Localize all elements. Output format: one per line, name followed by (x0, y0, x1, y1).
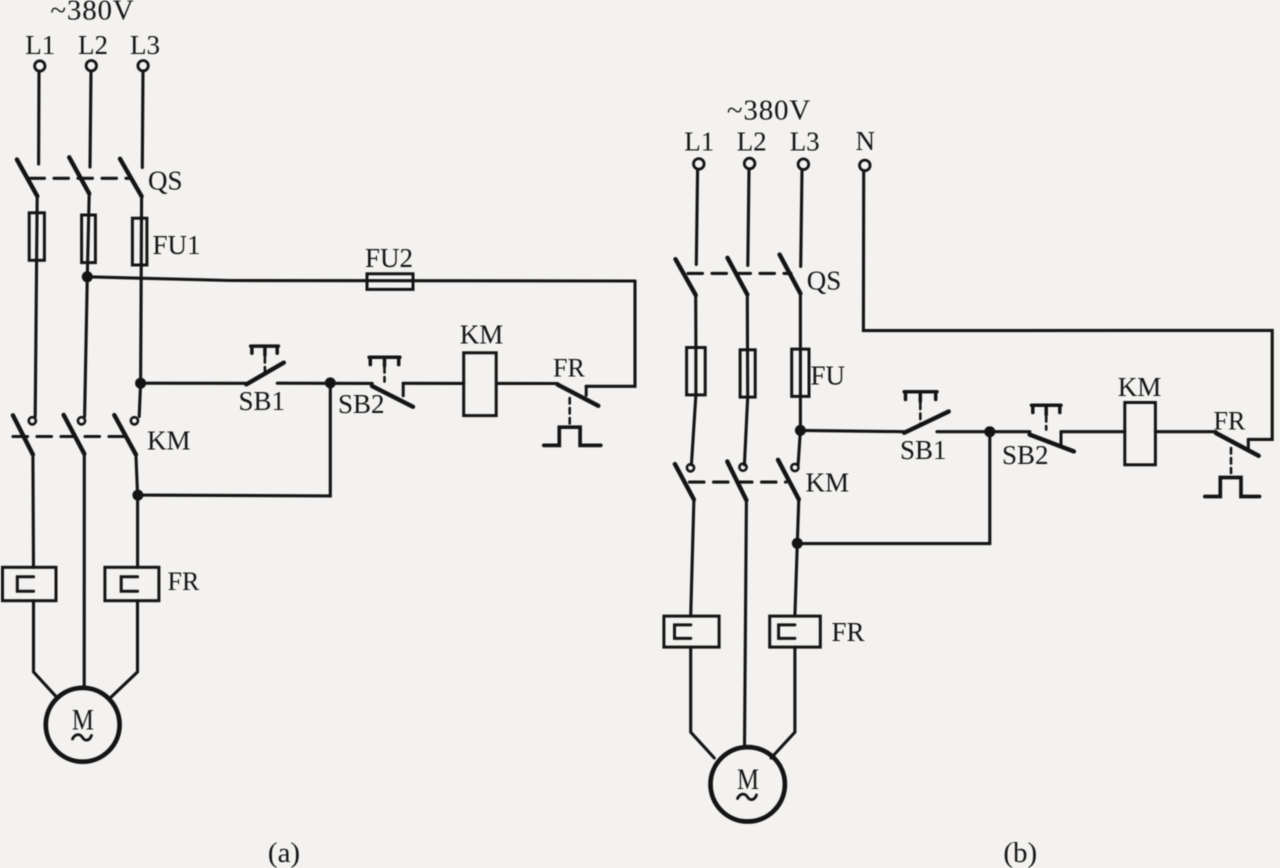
wire node A to FU2 to right rail (a) (87, 277, 635, 281)
motor tilde (a) (73, 735, 92, 740)
wire L2 terminal to QS (a) (90, 71, 91, 167)
overload relay FR heater 1 box (b) (664, 616, 719, 647)
contactor KM main contact 1 hook (b) (687, 464, 694, 471)
wire QS pole3 through fuse FU-3 to node E and KM contact (b) (798, 293, 800, 464)
svg-text:L1: L1 (684, 127, 714, 157)
wire FR heater 1 to motor (b) (691, 647, 715, 758)
contactor KM main contact 3 hook (a) (131, 417, 138, 424)
switch QS (b) pole 1 blade (676, 259, 696, 295)
overload relay FR heater 2 box (b) (770, 616, 821, 647)
svg-text:KM: KM (147, 426, 191, 456)
terminal L3 (a) (138, 60, 148, 70)
terminal N (b) (860, 160, 871, 171)
contactor KM main contacts linkage dashed line (b) (690, 481, 787, 484)
overload relay FR heater 2 inner detail (a) (121, 577, 137, 592)
wire KM coil to FR contact (a) (496, 382, 557, 385)
overload relay FR heater 1 inner detail (a) (17, 577, 33, 592)
wire latch branch node F to node G (b) (797, 432, 990, 544)
fuse FU1 element 1 (a) (29, 213, 44, 260)
pushbutton SB1 actuator (a) (251, 346, 279, 355)
svg-text:L3: L3 (130, 30, 160, 60)
fuse FU1 element 3 (a) (132, 218, 147, 265)
pushbutton SB1 blade (a) (246, 363, 283, 385)
wire right rail of control circuit (a) (586, 281, 635, 386)
wire N terminal down right and to FR contact (b) (863, 171, 1272, 439)
svg-text:FR: FR (553, 353, 585, 382)
wire KM contact 2 down to motor (a) (83, 454, 86, 689)
wire SB1 to node C to SB2 (a) (277, 382, 372, 385)
overload relay FR contact blade (b) (1216, 433, 1259, 456)
svg-text:(b): (b) (1003, 837, 1037, 868)
pushbutton SB2 actuator dashed stem (b) (1045, 416, 1048, 430)
overload relay FR manual reset symbol (b) (1205, 478, 1260, 497)
switch QS (a) pole 3 blade (120, 159, 142, 197)
svg-text:M: M (72, 704, 94, 736)
overload relay FR heater 2 box (a) (105, 567, 159, 600)
node D junction dot on L3 column below KM contact (a) (132, 490, 143, 501)
svg-text:SB1: SB1 (239, 386, 286, 416)
pushbutton SB1 blade (b) (904, 412, 949, 433)
node G junction dot SB1/SB2/latch (b) (984, 426, 995, 437)
pushbutton SB2 blade (b) (1030, 435, 1074, 452)
overload relay FR heater 1 inner detail (b) (675, 625, 691, 639)
wire L3 terminal to QS (b) (801, 170, 802, 267)
overload relay FR heater 2 inner detail (b) (779, 625, 795, 639)
wire QS pole3 through fuse FU1-3 to node B and KM contact (a) (139, 196, 141, 416)
pushbutton SB1 actuator dashed stem (b) (919, 404, 922, 425)
wire QS pole1 to fuse FU1-1 and down to KM contact (a) (35, 196, 37, 417)
overload relay FR contact dashed link (a) (568, 398, 571, 424)
switch QS (a) pole 1 blade (17, 160, 37, 197)
node A junction dot on L2 feeding FU2 (a) (82, 271, 93, 282)
fuse FU element 3 (b) (792, 349, 809, 396)
wire KM contact 2 down to motor (b) (745, 500, 747, 747)
svg-text:FU1: FU1 (153, 230, 201, 260)
switch QS (b) pole 3 blade (780, 255, 801, 294)
svg-text:N: N (855, 126, 875, 156)
svg-text:(a): (a) (268, 837, 300, 868)
contactor coil KM (a) (464, 353, 497, 416)
pushbutton SB2 actuator (a) (369, 357, 400, 366)
svg-text:L2: L2 (737, 127, 767, 157)
contactor KM main contacts linkage dashed line (a) (13, 435, 126, 438)
overload relay FR manual reset symbol (a) (544, 427, 601, 445)
wire FR heater 2 to motor (a) (110, 601, 137, 698)
switch QS (b) linkage dashed line (688, 272, 791, 275)
wire QS pole2 through fuse FU1-2 to node A (a) (85, 194, 90, 417)
svg-text:SB2: SB2 (1002, 440, 1049, 470)
contactor KM main contact 3 blade (b) (778, 460, 799, 500)
svg-text:FR: FR (168, 567, 200, 596)
wire SB2 to KM coil (b) (1061, 430, 1125, 433)
contactor KM main contact 2 blade (a) (64, 415, 85, 454)
overload relay FR heater 1 box (a) (3, 567, 57, 600)
wire SB1 to node G to SB2 (b) (937, 430, 1030, 433)
contactor KM main contact 2 hook (a) (78, 417, 85, 424)
overload relay FR contact blade (a) (558, 385, 599, 406)
pushbutton SB2 blade (a) (372, 386, 413, 407)
wire SB2 to KM coil (a) (403, 382, 464, 385)
contactor coil KM (b) (1125, 403, 1156, 465)
svg-text:SB2: SB2 (338, 389, 385, 419)
wire KM contact 1 to FR heater 1 (a) (31, 455, 35, 568)
fuse FU2 body (a) (367, 274, 413, 290)
wire L1 terminal to QS (b) (696, 170, 697, 265)
contactor KM main contact 1 hook (a) (29, 417, 36, 424)
svg-text:FR: FR (832, 617, 865, 647)
svg-text:~380V: ~380V (727, 95, 811, 127)
contactor KM main contact 3 hook (b) (791, 464, 798, 471)
motor M circle (b) (711, 747, 785, 821)
svg-text:M: M (737, 764, 759, 796)
contactor KM main contact 1 blade (b) (675, 464, 694, 499)
node F junction dot latch tap (b) (792, 538, 803, 549)
wire L2 terminal to QS (b) (748, 169, 749, 265)
contactor KM main contact 1 blade (a) (13, 415, 33, 454)
wire L1 terminal to QS (a) (37, 71, 41, 164)
wire L3 terminal to QS (a) (141, 71, 145, 167)
pushbutton SB2 right contact stub (b) (1060, 432, 1063, 446)
contactor KM main contact 2 blade (b) (727, 462, 746, 501)
switch QS (a) pole 2 blade (69, 157, 89, 193)
pushbutton SB2 actuator (b) (1032, 405, 1062, 414)
pushbutton SB2 actuator dashed stem (a) (383, 367, 386, 382)
contactor KM main contact 3 blade (a) (114, 415, 136, 455)
svg-text:FU2: FU2 (365, 243, 413, 273)
svg-text:KM: KM (460, 320, 504, 350)
svg-text:FU: FU (811, 361, 846, 391)
svg-text:~380V: ~380V (50, 0, 134, 27)
overload relay FR right contact stub (a) (585, 386, 588, 395)
terminal L2 (a) (86, 60, 96, 70)
wire KM contact 3 through node D to FR heater 2 (a) (136, 455, 138, 568)
wire KM contact 3 through node F to FR heater 2 (b) (795, 499, 799, 616)
fuse FU1 element 2 (a) (82, 215, 96, 263)
wire QS pole2 through fuse FU-2 to KM contact (b) (744, 295, 747, 465)
pushbutton SB2 right contact stub (a) (402, 383, 405, 396)
wire KM coil to FR contact (b) (1155, 430, 1216, 433)
svg-text:KM: KM (1118, 372, 1162, 402)
motor M circle (a) (46, 688, 120, 762)
pushbutton SB1 actuator dashed stem (a) (264, 357, 267, 376)
wire latch branch from node C down and left to node D (a) (138, 383, 330, 496)
svg-text:QS: QS (807, 266, 842, 296)
svg-text:QS: QS (148, 166, 183, 196)
motor tilde (b) (738, 794, 757, 799)
svg-text:L2: L2 (78, 30, 108, 60)
svg-text:KM: KM (806, 468, 850, 498)
terminal L1 (a) (35, 61, 45, 71)
wire KM contact 1 to FR heater 1 (b) (691, 500, 694, 617)
terminal L2 (b) (744, 158, 755, 169)
wire FR heater 2 to motor (b) (771, 647, 795, 758)
terminal L3 (b) (798, 159, 809, 170)
terminal L1 (b) (694, 159, 705, 170)
overload relay FR contact dashed link (b) (1230, 448, 1233, 473)
switch QS (b) pole 2 blade (728, 258, 748, 295)
wire node E to SB1 (b) (800, 430, 904, 431)
wire QS pole1 through fuse FU-1 to KM contact (b) (691, 295, 696, 465)
svg-text:SB1: SB1 (900, 435, 947, 465)
wire node B to SB1 (a) (141, 382, 249, 385)
contactor KM main contact 2 hook (b) (739, 464, 746, 471)
switch QS (a) linkage dashed line (30, 177, 131, 180)
svg-text:L3: L3 (790, 127, 820, 157)
overload relay FR right contact stub (b) (1247, 439, 1250, 448)
fuse FU element 2 (b) (740, 350, 755, 397)
node E junction dot on L3 feeding control circuit (b) (795, 425, 806, 436)
pushbutton SB1 actuator (b) (904, 392, 937, 402)
wire FR heater 1 to motor (a) (34, 601, 58, 698)
svg-text:FR: FR (1214, 407, 1246, 436)
svg-text:L1: L1 (25, 30, 55, 60)
node C junction dot SB1/SB2/latch (a) (325, 377, 336, 388)
fuse FU element 1 (b) (687, 348, 706, 395)
node B junction dot on L3 feeding control circuit (a) (135, 378, 146, 389)
